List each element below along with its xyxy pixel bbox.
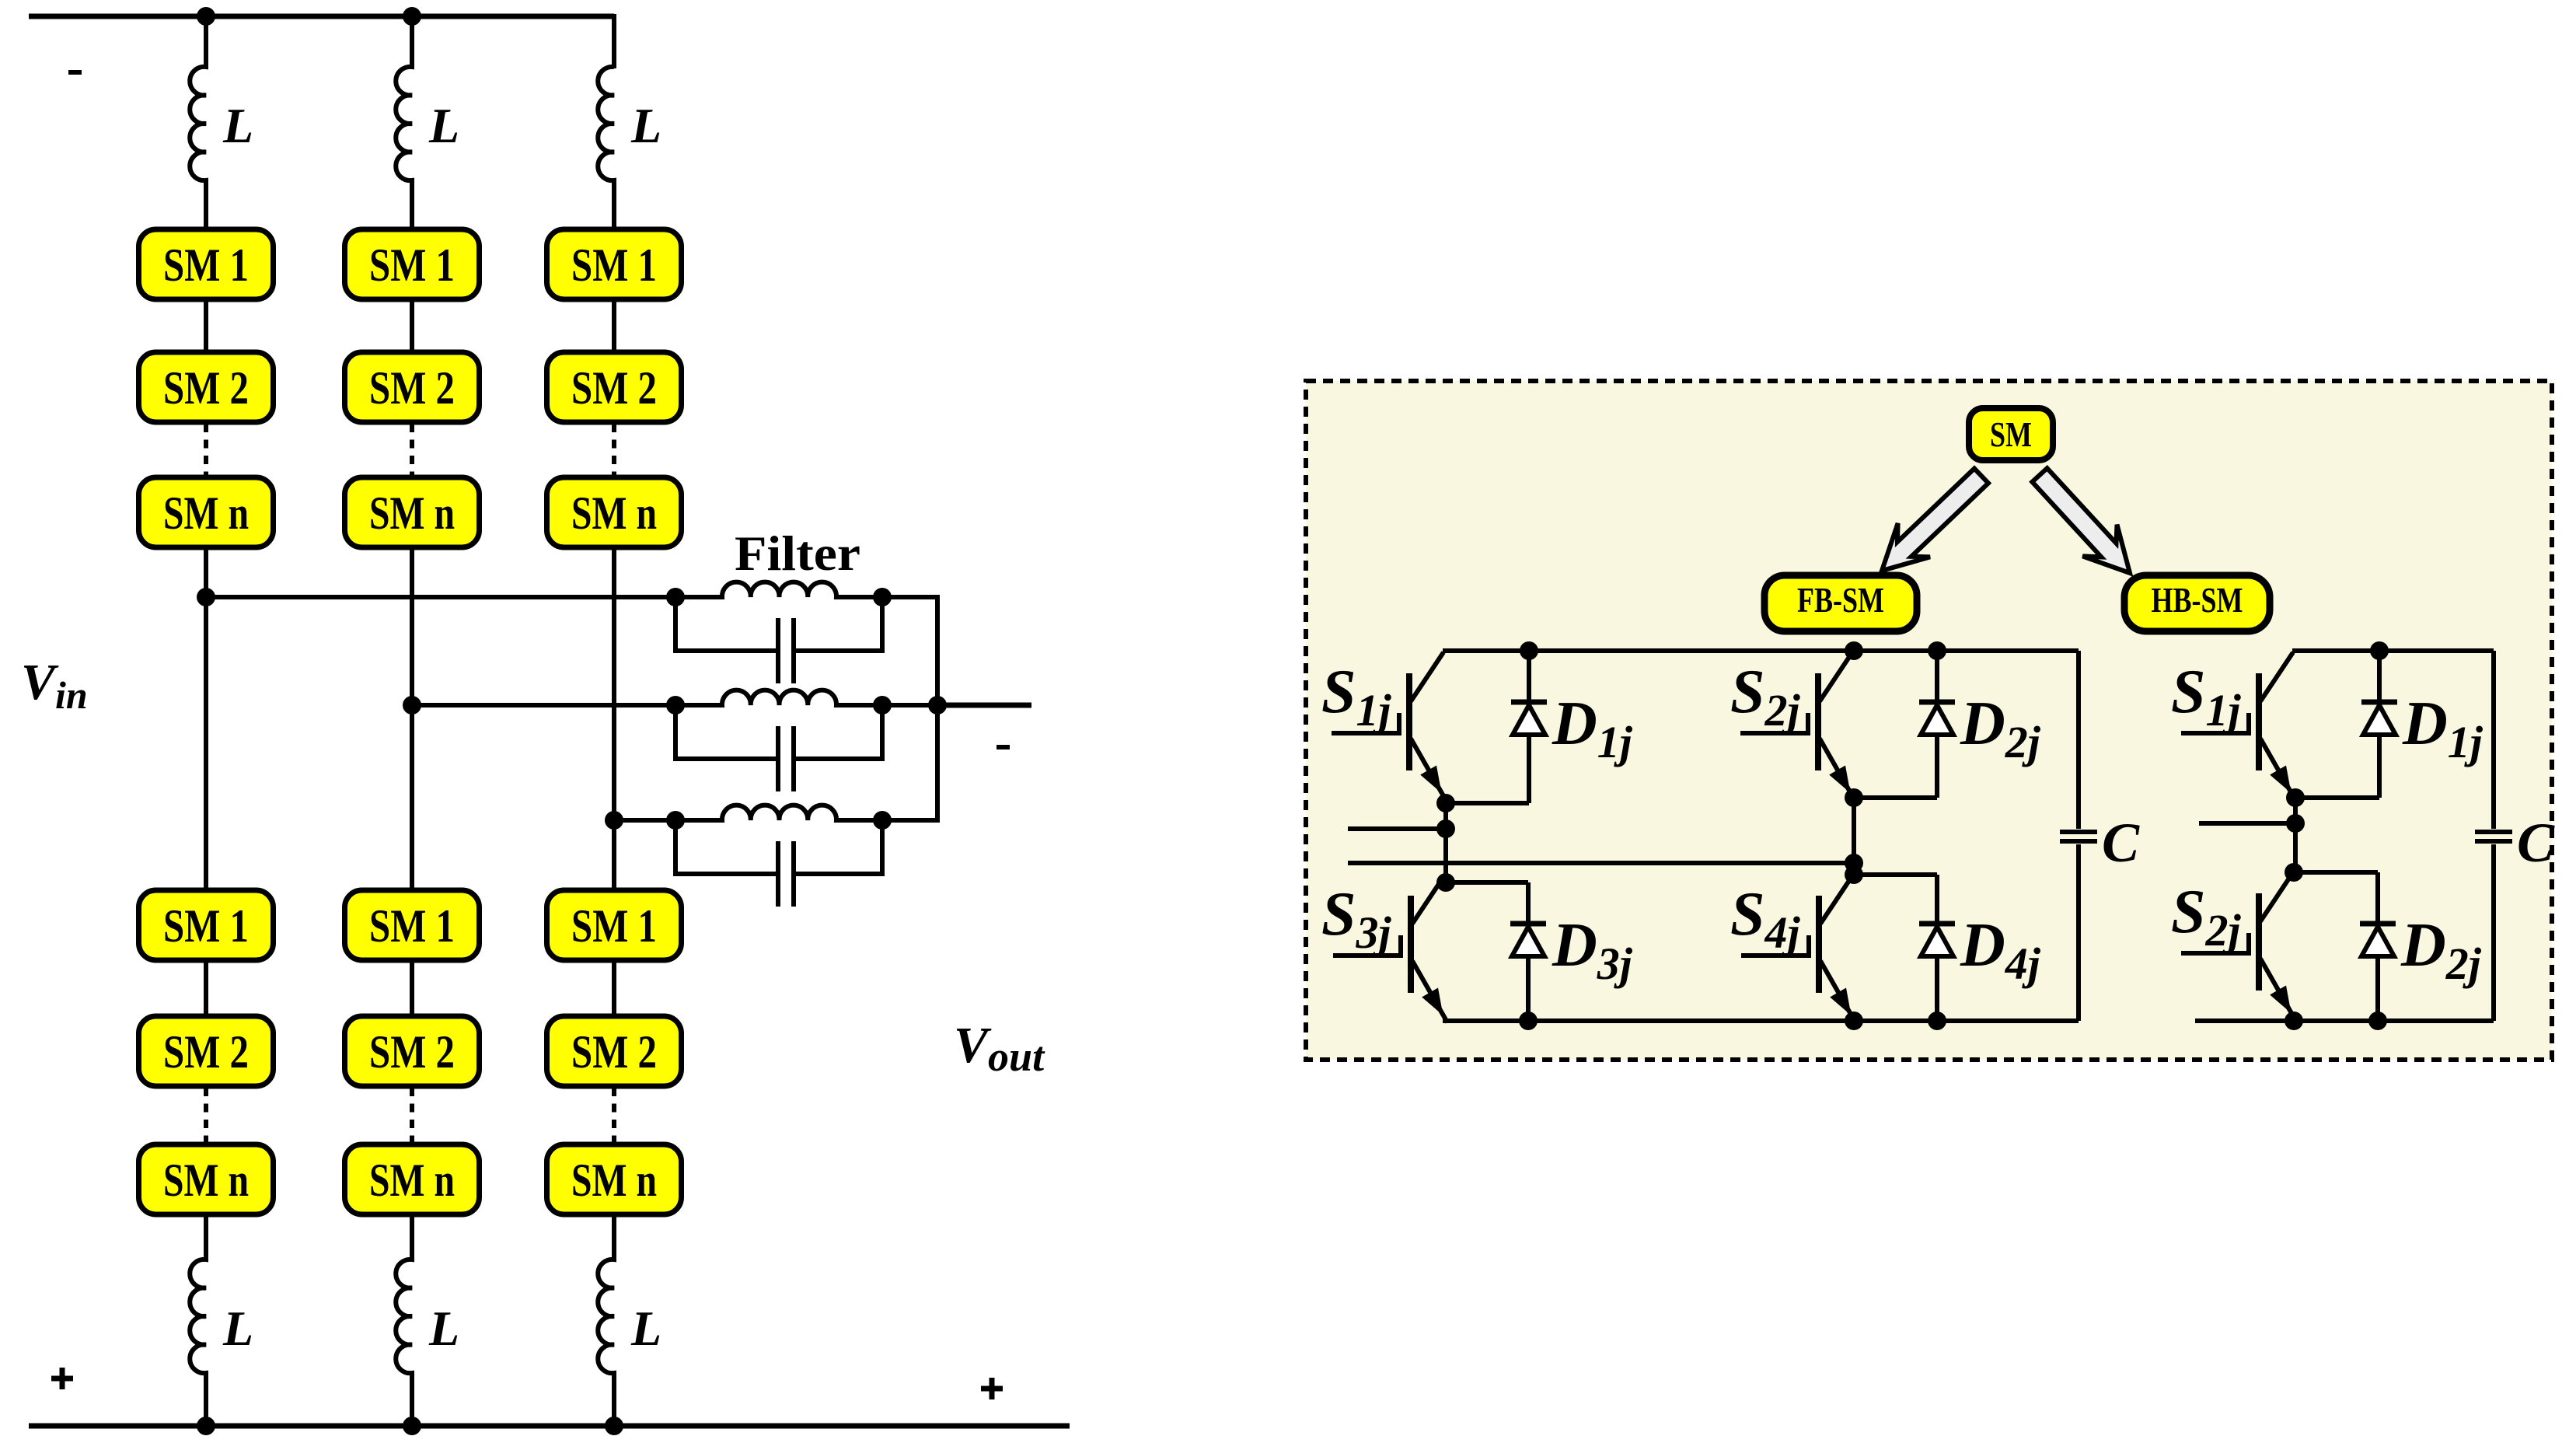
diode D4j (FB) bbox=[1919, 875, 2041, 1021]
wire row-2 tap to filter bbox=[412, 703, 675, 708]
submodule SM 2 (phase-2 lower arm) bbox=[345, 1016, 480, 1086]
capacitor C (FB) bbox=[2060, 830, 2097, 834]
wire SM1-SM2 (phase-3 lower) bbox=[612, 960, 616, 1016]
wire SMn to mid tap (phase-1) bbox=[204, 547, 208, 597]
svg-text:SM n: SM n bbox=[163, 1155, 249, 1206]
wire filter row-3 cap loop right bbox=[794, 820, 882, 874]
node dot filter row-3 output bbox=[873, 811, 892, 830]
submodule SM n (phase-2 upper arm) bbox=[345, 477, 480, 547]
wire FB right mid vertical bbox=[1852, 798, 1856, 875]
junction dot FB AC terminal 1 bbox=[1436, 819, 1455, 838]
arrow SM to FB-SM bbox=[1882, 469, 1988, 571]
svg-text:C: C bbox=[2102, 812, 2140, 874]
wire HB bottom rail bbox=[2195, 1018, 2494, 1023]
node dot filter row-1 input bbox=[666, 588, 685, 606]
svg-text:L: L bbox=[630, 98, 661, 153]
wire phase-1 mid vertical bbox=[204, 597, 208, 890]
submodule SM 2 (phase-2 upper arm) bbox=[345, 352, 480, 422]
wire FB left AC terminal 1 bbox=[1348, 826, 1446, 831]
submodule SM 2 (phase-1 lower arm) bbox=[139, 1016, 274, 1086]
wire HB S2j collector to D2j bbox=[2294, 870, 2378, 875]
submodule SM 1 (phase-3 lower arm) bbox=[547, 890, 682, 960]
wire filter row-3 to output bus bbox=[882, 705, 937, 820]
junction dot phase-1 mid tap bbox=[197, 588, 215, 606]
wire HB mid vertical bbox=[2293, 798, 2298, 872]
wire filter row-1 cap loop left bbox=[675, 597, 778, 651]
node dot S1j emitter bbox=[1436, 794, 1455, 812]
node dot filter row-1 output bbox=[873, 588, 892, 606]
wire HB cap branch bbox=[2491, 651, 2496, 1021]
transistor S2j (IGBT, FB) bbox=[1730, 652, 1855, 800]
wire phase-3 mid vertical bbox=[612, 820, 616, 890]
svg-text:SM 2: SM 2 bbox=[571, 362, 657, 414]
svg-text:Vin: Vin bbox=[21, 654, 88, 717]
wire filter row-1 cap loop right bbox=[794, 597, 882, 651]
inductor L (phase-1 upper arm) bbox=[190, 16, 206, 229]
label + (input positive polarity) bbox=[51, 1368, 73, 1389]
transistor S2j (IGBT, HB) bbox=[2171, 872, 2295, 1020]
wire dashed SM2-SMn (phase-3 upper) bbox=[612, 424, 616, 477]
capacitor filter row-1 bbox=[776, 618, 780, 683]
junction dot HB AC terminal bbox=[2286, 814, 2305, 833]
junction dot bottom bus / phase 2 bbox=[403, 1417, 421, 1435]
block FB-SM bbox=[1764, 575, 1917, 631]
junction dot bottom bus / phase 1 bbox=[197, 1417, 215, 1435]
transistor S4j (IGBT, FB) bbox=[1730, 875, 1855, 1022]
wire dashed SM2-SMn (phase-1 lower) bbox=[204, 1088, 208, 1144]
svg-text:SM n: SM n bbox=[571, 487, 657, 539]
diode D1j (FB) bbox=[1511, 651, 1633, 803]
submodule SM n (phase-3 upper arm) bbox=[547, 477, 682, 547]
svg-text:SM 1: SM 1 bbox=[571, 900, 657, 952]
svg-text:SM 2: SM 2 bbox=[369, 362, 455, 414]
inductor L (phase-3 lower arm) bbox=[598, 1214, 614, 1426]
junction dot FB bottom rail / D4j bbox=[1928, 1012, 1946, 1030]
submodule SM 1 (phase-1 lower arm) bbox=[139, 890, 274, 960]
wire SM1-SM2 (phase-1 upper) bbox=[204, 299, 208, 352]
node dot filter row-2 output bbox=[873, 696, 892, 715]
node dot HB S2j collector bbox=[2285, 863, 2303, 882]
junction dot FB bottom rail / S4j bbox=[1845, 1012, 1863, 1030]
wire HB AC terminal bbox=[2199, 821, 2295, 826]
svg-text:SM 1: SM 1 bbox=[571, 239, 657, 291]
wire FB top rail bbox=[1443, 648, 2079, 653]
svg-text:L: L bbox=[630, 1301, 661, 1356]
wire dashed SM2-SMn (phase-2 upper) bbox=[410, 424, 414, 477]
transistor S1j (IGBT, HB) bbox=[2171, 652, 2295, 800]
wire row-1 tap to filter bbox=[206, 595, 675, 599]
transistor S3j (IGBT, FB) bbox=[1321, 875, 1447, 1022]
block HB-SM bbox=[2124, 575, 2270, 631]
junction dot HB top rail / D1j bbox=[2370, 641, 2389, 660]
capacitor filter row-3 bbox=[776, 841, 780, 907]
block SM (tree root) bbox=[1969, 408, 2053, 460]
svg-text:SM 1: SM 1 bbox=[163, 900, 249, 952]
arrow SM to HB-SM bbox=[2032, 468, 2130, 573]
svg-text:SM 2: SM 2 bbox=[163, 1026, 249, 1078]
wire dashed SM2-SMn (phase-2 lower) bbox=[410, 1088, 414, 1144]
svg-text:C: C bbox=[2517, 812, 2555, 874]
junction dot phase-3 mid tap bbox=[605, 811, 623, 830]
wire phase-3 top corner drop bbox=[612, 14, 616, 68]
junction dot bottom bus / phase 3 bbox=[605, 1417, 623, 1435]
wire SM1-SM2 (phase-3 upper) bbox=[612, 299, 616, 352]
junction dot HB bottom rail / D2j bbox=[2368, 1012, 2387, 1030]
wire filter row-1 to output bus bbox=[882, 597, 937, 705]
svg-text:L: L bbox=[428, 1301, 459, 1356]
svg-text:SM 1: SM 1 bbox=[163, 239, 249, 291]
junction dot phase-2 mid tap bbox=[403, 696, 421, 715]
capacitor filter row-2 bbox=[776, 726, 780, 791]
node dot HB S1j emitter bbox=[2286, 788, 2305, 807]
junction dot FB top rail / S2j bbox=[1845, 641, 1863, 660]
submodule detail panel (dashed box) bbox=[1306, 381, 2552, 1060]
wire SM1-SM2 (phase-2 upper) bbox=[410, 299, 414, 352]
junction dot top bus / phase 1 bbox=[197, 7, 215, 26]
inductor filter row-1 bbox=[675, 582, 882, 597]
node dot S4j collector bbox=[1845, 865, 1863, 884]
svg-text:SM 1: SM 1 bbox=[369, 239, 455, 291]
svg-text:Vout: Vout bbox=[954, 1017, 1045, 1080]
submodule SM n (phase-1 upper arm) bbox=[139, 477, 274, 547]
label + (output positive polarity) bbox=[981, 1378, 1003, 1399]
inductor L (phase-2 upper arm) bbox=[396, 16, 412, 229]
inductor L (phase-2 lower arm) bbox=[396, 1214, 412, 1426]
svg-text:SM n: SM n bbox=[163, 487, 249, 539]
svg-text:Filter: Filter bbox=[735, 526, 860, 581]
wire S3j collector to D3j bbox=[1446, 880, 1528, 885]
diode D2j (HB) bbox=[2360, 872, 2482, 1021]
svg-text:L: L bbox=[428, 98, 459, 153]
svg-text:SM n: SM n bbox=[571, 1155, 657, 1206]
submodule SM 1 (phase-1 upper arm) bbox=[139, 229, 274, 299]
junction dot HB bottom rail / S2j bbox=[2285, 1012, 2303, 1030]
diode D1j (HB) bbox=[2361, 651, 2484, 798]
wire S1j emitter to D1j bbox=[1446, 801, 1529, 805]
svg-text:SM 2: SM 2 bbox=[571, 1026, 657, 1078]
junction dot output node bbox=[928, 696, 947, 715]
wire bottom DC bus (positive rail) bbox=[29, 1424, 1070, 1429]
junction dot FB top rail / D1j bbox=[1520, 641, 1538, 660]
label - (output negative polarity) bbox=[997, 745, 1010, 749]
wire filter row-2 cap loop left bbox=[675, 705, 778, 759]
wire SMn to mid tap (phase-2) bbox=[410, 547, 414, 705]
submodule SM n (phase-1 lower arm) bbox=[139, 1144, 274, 1214]
submodule SM 1 (phase-3 upper arm) bbox=[547, 229, 682, 299]
node dot S3j collector bbox=[1436, 873, 1455, 892]
wire S4j collector to D4j bbox=[1854, 872, 1937, 877]
inductor filter row-3 bbox=[675, 805, 882, 820]
junction dot FB bottom rail / D3j bbox=[1519, 1012, 1538, 1030]
svg-text:SM: SM bbox=[1990, 414, 2032, 454]
capacitor C (HB) bbox=[2475, 830, 2512, 834]
submodule SM 2 (phase-3 upper arm) bbox=[547, 352, 682, 422]
wire FB left mid vertical bbox=[1443, 803, 1448, 882]
wire dashed SM2-SMn (phase-1 upper) bbox=[204, 424, 208, 477]
svg-text:L: L bbox=[222, 98, 253, 153]
node dot filter row-2 input bbox=[666, 696, 685, 715]
diode D2j (FB) bbox=[1919, 651, 2041, 798]
junction dot top bus / phase 2 bbox=[403, 7, 421, 26]
svg-text:FB-SM: FB-SM bbox=[1797, 580, 1884, 620]
junction dot FB top rail / D2j bbox=[1928, 641, 1946, 660]
label - (input negative polarity) bbox=[68, 70, 82, 75]
wire row-3 tap to filter bbox=[614, 818, 675, 823]
svg-text:SM n: SM n bbox=[369, 1155, 455, 1206]
node dot S2j emitter bbox=[1845, 788, 1863, 807]
wire output terminal bbox=[937, 703, 1031, 708]
wire dashed SM2-SMn (phase-3 lower) bbox=[612, 1088, 616, 1144]
svg-text:SM 2: SM 2 bbox=[163, 362, 249, 414]
submodule SM 1 (phase-2 upper arm) bbox=[345, 229, 480, 299]
wire SM1-SM2 (phase-1 lower) bbox=[204, 960, 208, 1016]
inductor L (phase-1 lower arm) bbox=[190, 1214, 206, 1426]
submodule SM 2 (phase-1 upper arm) bbox=[139, 352, 274, 422]
wire top DC bus (negative rail) bbox=[29, 14, 614, 19]
wire filter row-2 cap loop right bbox=[794, 705, 882, 759]
wire HB S1j emitter to D1j bbox=[2295, 795, 2379, 800]
wire filter row-2 to output node bbox=[882, 703, 937, 708]
svg-text:SM n: SM n bbox=[369, 487, 455, 539]
submodule SM 2 (phase-3 lower arm) bbox=[547, 1016, 682, 1086]
submodule SM 1 (phase-2 lower arm) bbox=[345, 890, 480, 960]
junction dot FB AC terminal 2 bbox=[1845, 854, 1863, 872]
wire FB bottom rail bbox=[1443, 1018, 2079, 1023]
submodule SM n (phase-3 lower arm) bbox=[547, 1144, 682, 1214]
svg-text:L: L bbox=[222, 1301, 253, 1356]
diode D3j (FB) bbox=[1510, 882, 1633, 1021]
svg-text:SM 1: SM 1 bbox=[369, 900, 455, 952]
svg-text:HB-SM: HB-SM bbox=[2152, 580, 2243, 620]
inductor filter row-2 bbox=[675, 690, 882, 705]
inductor L (phase-3 upper arm) bbox=[598, 67, 614, 229]
wire S2j emitter to D2j bbox=[1854, 795, 1937, 800]
svg-text:SM 2: SM 2 bbox=[369, 1026, 455, 1078]
transistor S1j (IGBT, FB) bbox=[1321, 652, 1446, 800]
wire SMn to mid tap (phase-3) bbox=[612, 547, 616, 820]
wire FB cap branch bbox=[2076, 651, 2081, 1021]
wire filter row-3 cap loop left bbox=[675, 820, 778, 874]
wire HB top rail bbox=[2292, 648, 2494, 653]
wire FB AC terminal 2 bbox=[1348, 861, 1854, 865]
submodule SM n (phase-2 lower arm) bbox=[345, 1144, 480, 1214]
node dot filter row-3 input bbox=[666, 811, 685, 830]
wire phase-2 mid vertical bbox=[410, 705, 414, 890]
wire SM1-SM2 (phase-2 lower) bbox=[410, 960, 414, 1016]
